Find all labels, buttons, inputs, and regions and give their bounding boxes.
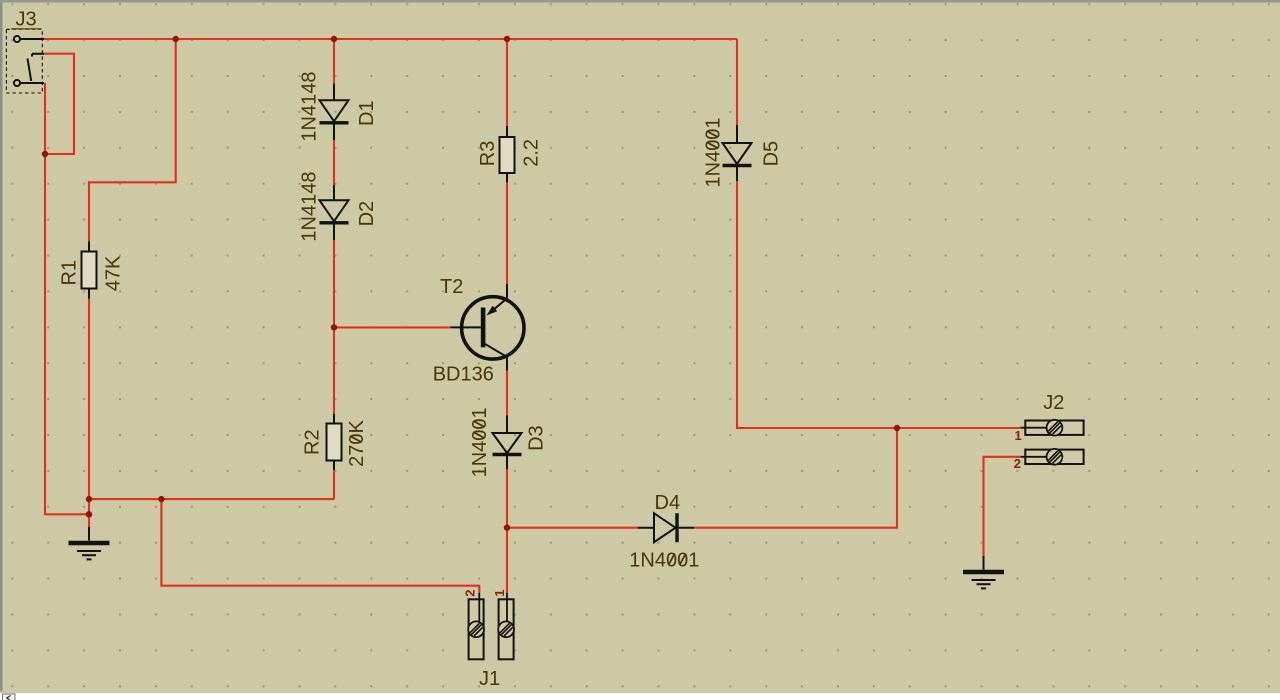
- svg-text:D5: D5: [760, 141, 782, 167]
- svg-text:1: 1: [492, 590, 507, 597]
- svg-text:D2: D2: [356, 201, 378, 227]
- svg-text:2: 2: [1014, 456, 1021, 471]
- svg-text:R2: R2: [302, 429, 324, 455]
- svg-text:D1: D1: [356, 100, 378, 126]
- svg-text:1N4001: 1N4001: [703, 117, 725, 187]
- svg-text:J1: J1: [479, 668, 500, 690]
- svg-text:J2: J2: [1043, 392, 1064, 414]
- svg-text:1N4148: 1N4148: [298, 172, 320, 242]
- svg-text:D4: D4: [655, 492, 681, 514]
- svg-text:2: 2: [463, 590, 478, 597]
- svg-text:R1: R1: [59, 260, 81, 286]
- svg-text:1N4148: 1N4148: [298, 72, 320, 142]
- svg-text:D3: D3: [525, 425, 547, 451]
- svg-text:1: 1: [1015, 428, 1022, 443]
- svg-text:R3: R3: [477, 141, 499, 167]
- svg-text:2.2: 2.2: [521, 139, 543, 167]
- svg-text:270K: 270K: [346, 420, 368, 467]
- svg-text:J3: J3: [16, 9, 37, 31]
- svg-text:1N4001: 1N4001: [469, 407, 491, 477]
- svg-text:47K: 47K: [103, 255, 125, 291]
- svg-text:BD136: BD136: [433, 363, 494, 385]
- svg-text:T2: T2: [440, 276, 463, 298]
- svg-text:1N4001: 1N4001: [629, 549, 699, 571]
